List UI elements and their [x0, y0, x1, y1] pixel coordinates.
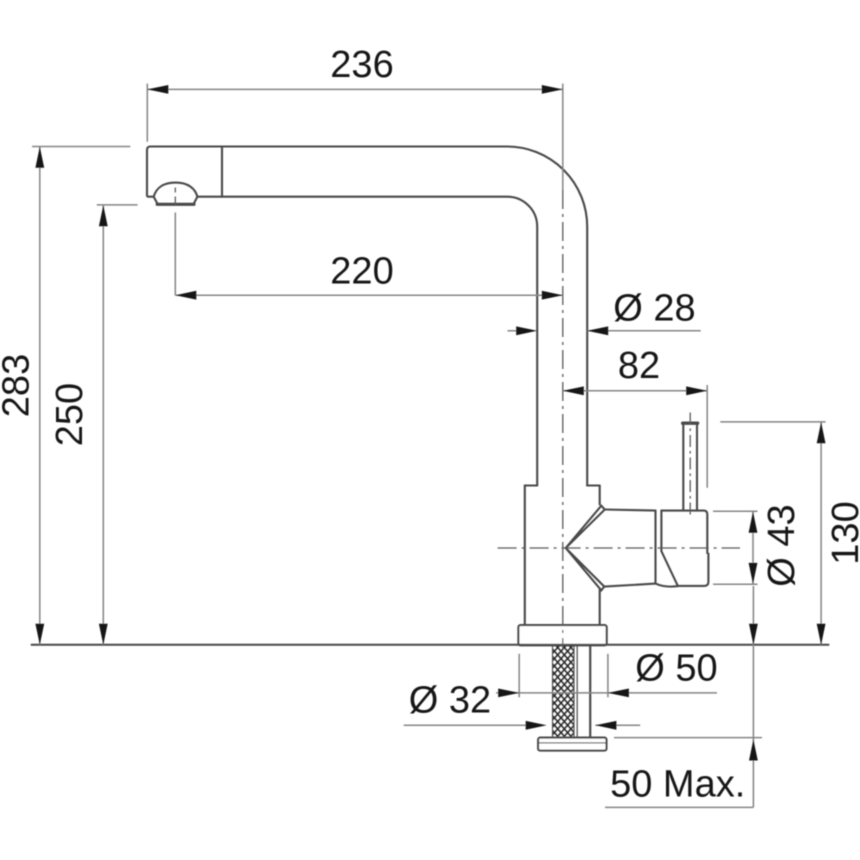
svg-text:Ø 43: Ø 43 — [761, 504, 803, 586]
dim d50 line — [496, 692, 717, 694]
arrow 283 bottom — [35, 624, 44, 645]
dim d43 extension top — [713, 510, 758, 512]
dim d32 line left — [404, 724, 526, 726]
body top shoulders — [525, 484, 600, 486]
dim d28 right tail — [587, 330, 701, 332]
svg-text:Ø 32: Ø 32 — [409, 680, 491, 722]
lock nut — [538, 738, 606, 751]
dim d32 line right — [595, 724, 640, 726]
dim d43 extension bottom — [713, 583, 758, 585]
dim 236 extension left — [146, 84, 148, 142]
lever rod top cap — [683, 422, 698, 425]
aerator dome — [154, 183, 198, 197]
arrow 220 left — [175, 291, 196, 300]
dim 82 line — [563, 390, 707, 392]
knurled shank — [553, 646, 575, 738]
arrow d50 right — [608, 689, 629, 698]
body left side — [524, 486, 526, 626]
svg-text:250: 250 — [49, 383, 91, 446]
dim 82 extension right — [706, 385, 708, 488]
dim 236 extension right / pipe centerline solid top — [562, 84, 564, 190]
svg-text:283: 283 — [0, 354, 38, 417]
arrow 250 top — [99, 205, 108, 226]
dim 130 extension top — [720, 421, 825, 423]
handle cap diagonal — [661, 551, 678, 586]
handle joint line — [654, 511, 656, 584]
dim d43 line — [752, 511, 754, 584]
svg-text:82: 82 — [618, 345, 660, 387]
svg-text:220: 220 — [330, 251, 393, 293]
dim 50max vertical line — [752, 586, 754, 807]
dim 50max leader bottom — [605, 806, 753, 808]
handle cap left edge — [660, 511, 662, 552]
dim 220 extension (aerator) — [174, 213, 176, 296]
arrow 82 left — [563, 386, 584, 395]
arrow 220 right — [542, 291, 563, 300]
spout bottom edge + inner elbow + pipe left edge — [197, 197, 537, 486]
arrow d28 left — [516, 326, 537, 335]
dim d50 tick left — [518, 654, 520, 698]
dim 50max nut extension — [614, 737, 762, 739]
svg-text:Ø 50: Ø 50 — [635, 648, 717, 690]
dim d28 left tail — [508, 330, 518, 332]
svg-text:236: 236 — [330, 44, 393, 86]
spout top edge + outer elbow + pipe right edge — [147, 147, 587, 486]
body right side lower — [599, 590, 601, 626]
shank right thin line — [576, 646, 578, 738]
svg-text:Ø 28: Ø 28 — [613, 288, 695, 330]
arrow d32 right — [595, 721, 616, 730]
arrow 82 right — [686, 386, 707, 395]
svg-text:50 Max.: 50 Max. — [610, 764, 745, 806]
dim 236 line — [147, 88, 563, 90]
dim 250 line — [102, 205, 104, 645]
counter line — [32, 644, 829, 646]
svg-text:130: 130 — [825, 501, 860, 564]
dim 283 extension top — [32, 146, 130, 148]
aerator chamfer sides — [154, 197, 198, 204]
arrow 50max up — [749, 740, 758, 761]
arrow 250 bottom — [99, 624, 108, 645]
arrow d43 top — [749, 512, 758, 533]
arrow 130 bottom — [817, 624, 826, 645]
arrow 130 top — [817, 422, 826, 443]
handle cut arc — [656, 584, 678, 587]
handle cap outline — [661, 511, 708, 586]
arrow 236 right — [542, 85, 563, 94]
dim 283 line — [39, 147, 41, 645]
dim 130 line — [820, 422, 822, 645]
arrow d50 left — [498, 689, 519, 698]
handle middle cylinder bottom edge — [604, 584, 655, 587]
pipe centerline — [562, 190, 564, 649]
dim 250 extension top — [97, 204, 138, 206]
arrow 50max down — [749, 624, 758, 645]
arrow 236 left — [147, 85, 168, 94]
lever rod sides — [683, 424, 697, 510]
handle middle cylinder top edge — [605, 510, 656, 511]
arrow 283 top — [35, 147, 44, 168]
arrow d28 right — [587, 326, 608, 335]
handle cone lower rays — [566, 548, 605, 590]
handle centerline — [498, 547, 740, 549]
lock nut inner line — [539, 742, 606, 744]
lever rod centerline — [689, 413, 691, 519]
arrow d43 bottom — [749, 563, 758, 584]
body right side upper — [599, 486, 601, 505]
aerator bottom thick line — [157, 203, 194, 206]
spout head joint line — [221, 147, 223, 197]
dim 220 line — [175, 294, 563, 296]
handle cone upper rays — [566, 506, 605, 548]
flange — [518, 625, 606, 645]
arrow d32 left — [526, 721, 547, 730]
dim d50 tick right — [607, 654, 609, 698]
aerator centerline dashes — [174, 188, 176, 209]
spout head left edge — [147, 150, 154, 197]
shank hose line — [589, 646, 591, 738]
